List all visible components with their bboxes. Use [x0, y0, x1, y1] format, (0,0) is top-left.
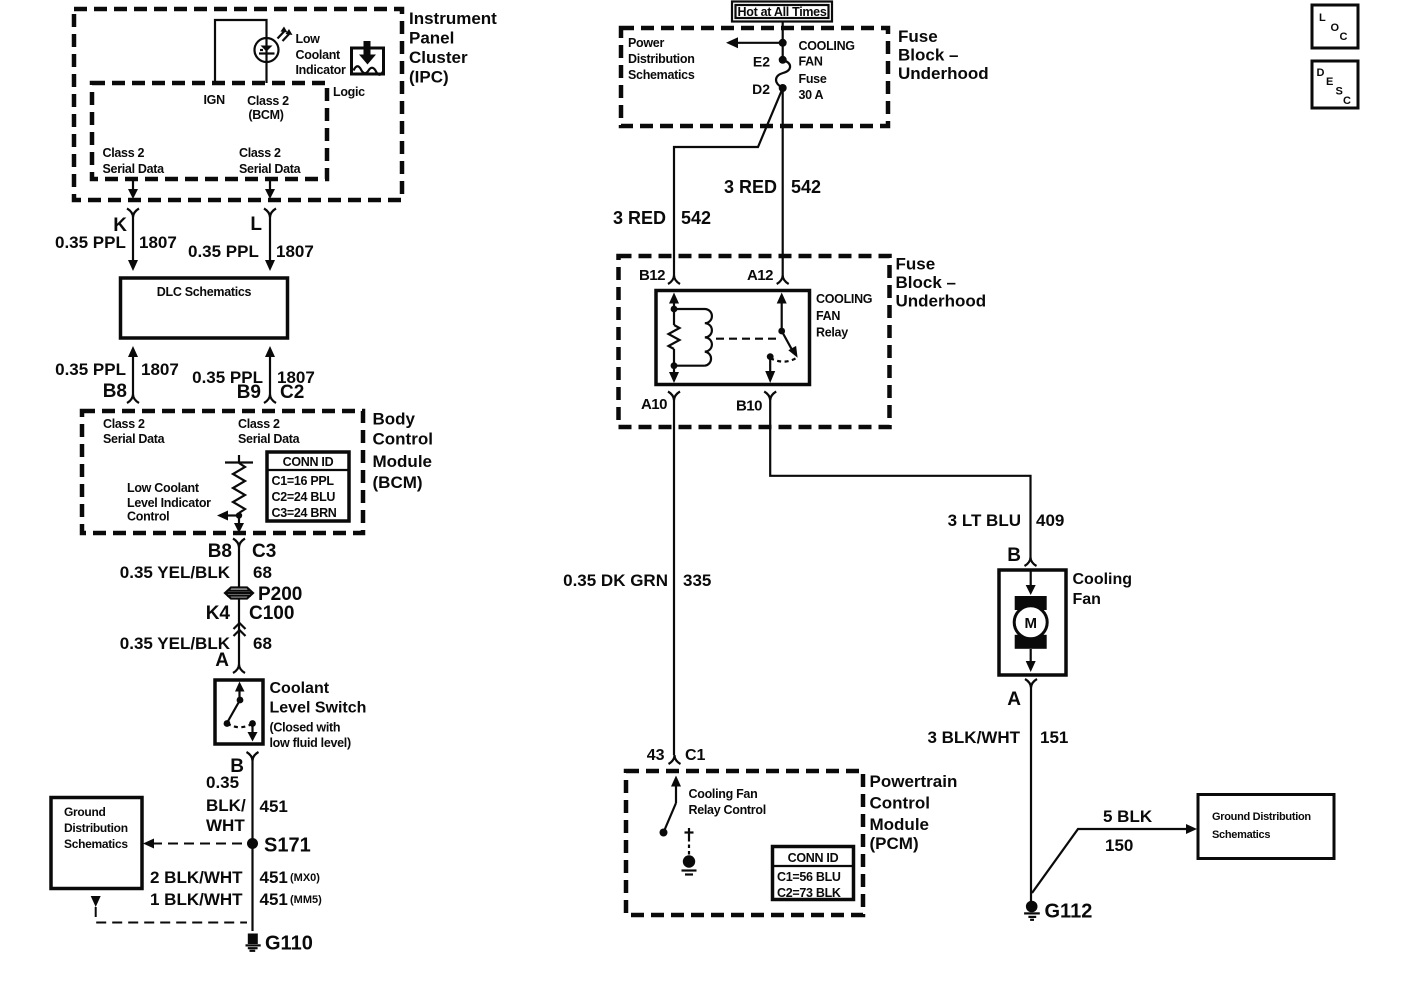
svg-text:Fuse: Fuse — [896, 255, 936, 274]
wire hot feed — [782, 22, 784, 60]
svg-text:Instrument: Instrument — [409, 9, 497, 28]
lamp light rays — [278, 31, 286, 39]
svg-text:Serial Data: Serial Data — [239, 162, 302, 176]
svg-text:B: B — [1007, 545, 1021, 566]
connector fork B8 C3 — [233, 539, 245, 548]
svg-text:CONN ID: CONN ID — [283, 455, 334, 469]
fan feed arrow — [1030, 570, 1032, 586]
svg-text:Distribution: Distribution — [64, 821, 128, 835]
svg-text:(Closed with: (Closed with — [270, 721, 341, 735]
wire branch to ground distribution 5 BLK 150 — [1032, 829, 1190, 893]
svg-text:Class 2: Class 2 — [239, 146, 281, 160]
svg-text:P200: P200 — [258, 584, 302, 605]
fan return arrow — [1030, 649, 1032, 662]
svg-text:Power: Power — [628, 36, 664, 50]
ground distribution schematics box left — [51, 798, 142, 889]
svg-text:C2=24 BLU: C2=24 BLU — [272, 490, 336, 504]
wire through C100 — [238, 599, 240, 665]
svg-text:151: 151 — [1040, 728, 1068, 747]
svg-text:Underhood: Underhood — [898, 64, 989, 83]
svg-text:0.35 DK GRN: 0.35 DK GRN — [563, 571, 668, 590]
svg-text:43: 43 — [647, 747, 665, 764]
svg-text:B8: B8 — [103, 381, 127, 402]
connector fork A12 — [777, 275, 789, 284]
svg-text:Coolant: Coolant — [296, 48, 342, 62]
wire fan ground 3 BLK/WHT 151 — [1030, 688, 1032, 901]
svg-text:3 LT BLU: 3 LT BLU — [948, 511, 1021, 530]
svg-text:C1: C1 — [685, 747, 706, 764]
svg-text:L: L — [1319, 12, 1326, 24]
svg-text:B12: B12 — [639, 267, 665, 284]
svg-text:L: L — [250, 214, 262, 235]
svg-text:A: A — [1007, 689, 1021, 710]
PCM input arrow — [671, 776, 681, 787]
svg-text:Class 2: Class 2 — [103, 417, 145, 431]
relay coil — [674, 309, 712, 366]
svg-text:Serial Data: Serial Data — [103, 162, 166, 176]
svg-text:0.35 YEL/BLK: 0.35 YEL/BLK — [120, 563, 231, 582]
ground distribution schematics box right — [1198, 795, 1334, 859]
fuse block underhood box 2 — [619, 256, 890, 427]
svg-text:M: M — [1024, 615, 1037, 632]
svg-text:C2: C2 — [280, 382, 304, 403]
svg-text:(BCM): (BCM) — [373, 473, 423, 492]
wire arrow to power distribution — [737, 42, 783, 44]
svg-text:Class 2: Class 2 — [238, 417, 280, 431]
DESC nav icon — [1312, 61, 1358, 108]
svg-text:COOLING: COOLING — [799, 39, 855, 53]
arrow control output left — [226, 514, 239, 516]
svg-text:Level Indicator: Level Indicator — [127, 496, 211, 510]
svg-text:1807: 1807 — [139, 233, 177, 252]
svg-text:C3=24 BRN: C3=24 BRN — [272, 506, 337, 520]
svg-text:335: 335 — [683, 571, 711, 590]
svg-text:D2: D2 — [752, 81, 770, 97]
connector fork A10 — [668, 392, 680, 401]
svg-text:low fluid level): low fluid level) — [270, 736, 351, 750]
resistor low coolant control — [225, 455, 253, 524]
wire D2 branch to B12 3 RED 542 — [674, 91, 782, 275]
connector fork B10 — [764, 392, 776, 401]
node E2 — [779, 56, 787, 64]
svg-text:S: S — [1336, 86, 1343, 98]
svg-text:3 BLK/WHT: 3 BLK/WHT — [927, 728, 1020, 747]
svg-text:CONN ID: CONN ID — [788, 851, 839, 865]
svg-text:Schematics: Schematics — [628, 68, 695, 82]
low coolant logic icon — [352, 41, 384, 75]
svg-text:(MX0): (MX0) — [290, 872, 320, 884]
svg-text:Distribution: Distribution — [628, 52, 695, 66]
fuse block underhood box 1 — [621, 28, 888, 126]
svg-text:Module: Module — [870, 815, 930, 834]
svg-text:5 BLK: 5 BLK — [1103, 807, 1153, 826]
pass-through grommet P200 — [225, 588, 253, 599]
svg-text:(MM5): (MM5) — [290, 894, 322, 906]
arrow serial data left — [132, 179, 134, 190]
PCM CONN ID table — [773, 847, 854, 901]
ground G110 — [246, 934, 261, 951]
svg-text:Serial Data: Serial Data — [103, 432, 166, 446]
wire IGN feed to lamp — [215, 20, 267, 83]
svg-text:Level Switch: Level Switch — [270, 700, 367, 717]
svg-text:Control: Control — [870, 794, 930, 813]
arrow under ground box — [91, 896, 101, 907]
svg-text:C100: C100 — [249, 603, 294, 624]
svg-text:451: 451 — [260, 868, 288, 887]
connector fork K — [127, 209, 139, 218]
LOC nav icon — [1312, 5, 1358, 48]
PCM driver switch armature — [665, 803, 677, 830]
coolant level switch contacts — [224, 682, 258, 742]
svg-text:Ground Distribution: Ground Distribution — [1212, 811, 1311, 823]
wire A10 relay control 0.35 DK GRN 335 — [673, 401, 675, 756]
fuse COOLING FAN 30A — [776, 60, 790, 88]
svg-text:K4: K4 — [206, 603, 231, 624]
svg-text:30 A: 30 A — [799, 88, 824, 102]
arrow serial data right — [269, 179, 271, 190]
ground G112 — [1024, 901, 1040, 920]
connector fork A — [233, 664, 245, 673]
svg-text:C: C — [1343, 95, 1351, 107]
relay coil input arrow B12 — [669, 293, 679, 304]
dashed link S171 to ground distribution — [152, 843, 247, 845]
svg-text:Panel: Panel — [409, 29, 454, 48]
svg-text:Cooling: Cooling — [1073, 571, 1133, 588]
svg-text:2 BLK/WHT: 2 BLK/WHT — [150, 868, 243, 887]
svg-text:(IPC): (IPC) — [409, 68, 449, 87]
svg-text:D: D — [1317, 67, 1325, 79]
svg-text:0.35 PPL: 0.35 PPL — [55, 360, 126, 379]
svg-text:Serial Data: Serial Data — [238, 432, 301, 446]
motor M — [1014, 606, 1047, 639]
svg-text:Control: Control — [127, 510, 169, 524]
svg-text:Coolant: Coolant — [270, 680, 330, 697]
svg-text:Body: Body — [373, 410, 416, 429]
svg-text:1807: 1807 — [141, 360, 179, 379]
svg-text:409: 409 — [1036, 511, 1064, 530]
svg-text:Relay Control: Relay Control — [689, 803, 766, 817]
wire 0.35 YEL/BLK 68 upper — [238, 548, 240, 588]
svg-text:Cooling Fan: Cooling Fan — [689, 787, 758, 801]
svg-text:C: C — [1340, 31, 1348, 43]
connector fork B — [247, 752, 259, 761]
indicator lamp low coolant — [255, 38, 279, 62]
svg-text:E: E — [1326, 76, 1333, 88]
svg-text:0.35 PPL: 0.35 PPL — [188, 242, 259, 261]
svg-text:Control: Control — [373, 430, 433, 449]
BCM CONN ID table — [267, 452, 349, 521]
svg-text:150: 150 — [1105, 836, 1133, 855]
relay actuation dashed link — [716, 338, 779, 340]
svg-text:451: 451 — [260, 797, 288, 816]
IPC inner connector dashed box — [92, 83, 327, 179]
svg-text:Underhood: Underhood — [896, 292, 987, 311]
connector fork C1 — [669, 755, 681, 764]
svg-text:A10: A10 — [641, 396, 667, 413]
svg-text:Ground: Ground — [64, 805, 106, 819]
svg-text:Block –: Block – — [898, 46, 958, 65]
svg-text:0.35 YEL/BLK: 0.35 YEL/BLK — [120, 634, 231, 653]
svg-text:WHT: WHT — [206, 816, 245, 835]
svg-text:(BCM): (BCM) — [248, 108, 283, 122]
wire 0.35 BLK/WHT 451 — [251, 761, 253, 931]
DLC Schematics box — [121, 278, 288, 338]
coolant level switch box — [215, 680, 263, 744]
relay coil output arrow A10 — [673, 366, 675, 373]
svg-text:IGN: IGN — [204, 93, 226, 107]
svg-text:451: 451 — [260, 890, 288, 909]
svg-text:COOLING: COOLING — [816, 292, 872, 306]
relay switch armature — [782, 331, 794, 353]
cooling fan relay box — [656, 291, 810, 385]
wire B9 C2 to DLC — [265, 346, 275, 357]
svg-text:FAN: FAN — [799, 55, 823, 69]
connector fork B12 — [668, 275, 680, 284]
svg-text:Indicator: Indicator — [296, 63, 347, 77]
svg-text:Schematics: Schematics — [1212, 829, 1270, 841]
svg-text:E2: E2 — [753, 54, 770, 70]
svg-text:68: 68 — [253, 563, 272, 582]
svg-text:C1=56 BLU: C1=56 BLU — [777, 870, 841, 884]
svg-text:G112: G112 — [1045, 901, 1093, 923]
splice S171 — [247, 838, 258, 849]
svg-text:Hot at All Times: Hot at All Times — [738, 5, 827, 19]
svg-text:C3: C3 — [252, 541, 276, 562]
svg-text:Block –: Block – — [896, 273, 956, 292]
wire D2 to A12 3 RED 542 — [782, 88, 784, 275]
inline connector C100 chevrons — [234, 623, 246, 636]
svg-text:0.35: 0.35 — [206, 773, 239, 792]
svg-text:Powertrain: Powertrain — [870, 772, 958, 791]
svg-text:Fuse: Fuse — [799, 72, 827, 86]
svg-text:Low: Low — [296, 32, 321, 46]
node feed junction — [779, 39, 787, 47]
relay switch input arrow A12 — [777, 293, 787, 304]
dashed link ground box to G110 wire — [96, 907, 247, 923]
svg-text:0.35 PPL: 0.35 PPL — [55, 233, 126, 252]
svg-text:Class 2: Class 2 — [247, 94, 289, 108]
body control module BCM box — [82, 411, 363, 533]
svg-text:O: O — [1331, 22, 1340, 34]
svg-text:Class 2: Class 2 — [103, 146, 145, 160]
node D2 — [779, 84, 787, 92]
svg-text:Module: Module — [373, 452, 433, 471]
svg-text:DLC Schematics: DLC Schematics — [157, 285, 252, 299]
svg-text:1 BLK/WHT: 1 BLK/WHT — [150, 890, 243, 909]
svg-text:C1=16 PPL: C1=16 PPL — [272, 474, 335, 488]
PCM driver contact to ground — [682, 828, 697, 875]
svg-text:S171: S171 — [264, 835, 311, 857]
svg-text:Logic: Logic — [333, 85, 365, 99]
svg-text:B9: B9 — [237, 382, 261, 403]
connector fork L — [264, 209, 276, 218]
svg-text:G110: G110 — [265, 933, 313, 955]
wire L 0.35 PPL 1807 — [269, 218, 271, 262]
svg-text:(PCM): (PCM) — [870, 834, 919, 853]
cooling fan motor box — [999, 570, 1066, 675]
relay output contact B10 — [767, 353, 774, 360]
motor commutator bars — [1015, 596, 1047, 610]
relay switch travel dashed arc — [770, 358, 795, 362]
svg-text:A12: A12 — [747, 267, 773, 284]
wire B8 to DLC — [128, 346, 138, 357]
svg-text:Low Coolant: Low Coolant — [127, 481, 200, 495]
wire lamp to class2 pin — [265, 62, 267, 83]
svg-text:542: 542 — [681, 208, 711, 228]
svg-text:BLK/: BLK/ — [206, 796, 246, 815]
connector fork A fan — [1025, 679, 1037, 688]
svg-text:68: 68 — [253, 634, 272, 653]
svg-text:B8: B8 — [208, 541, 232, 562]
powertrain control module PCM box — [626, 771, 863, 915]
svg-text:Schematics: Schematics — [64, 837, 128, 851]
svg-text:3 RED: 3 RED — [613, 208, 666, 228]
svg-text:Cluster: Cluster — [409, 48, 468, 67]
relay resistor — [673, 309, 675, 325]
wire B10 to cooling fan — [770, 401, 1030, 558]
svg-text:FAN: FAN — [816, 309, 840, 323]
hot at all times banner — [732, 2, 832, 22]
svg-text:B10: B10 — [736, 398, 762, 415]
connector fork B fan — [1025, 557, 1037, 566]
instrument panel cluster IPC box — [74, 9, 402, 200]
wire K 0.35 PPL 1807 — [132, 218, 134, 262]
svg-text:542: 542 — [791, 177, 821, 197]
svg-text:A: A — [215, 650, 229, 671]
arrow wire down out of BCM — [234, 523, 244, 533]
svg-text:3 RED: 3 RED — [724, 177, 777, 197]
svg-text:1807: 1807 — [276, 242, 314, 261]
svg-text:Relay: Relay — [816, 326, 848, 340]
svg-text:Fuse: Fuse — [898, 27, 938, 46]
svg-text:Fan: Fan — [1073, 591, 1101, 608]
svg-text:C2=73 BLK: C2=73 BLK — [777, 886, 841, 900]
